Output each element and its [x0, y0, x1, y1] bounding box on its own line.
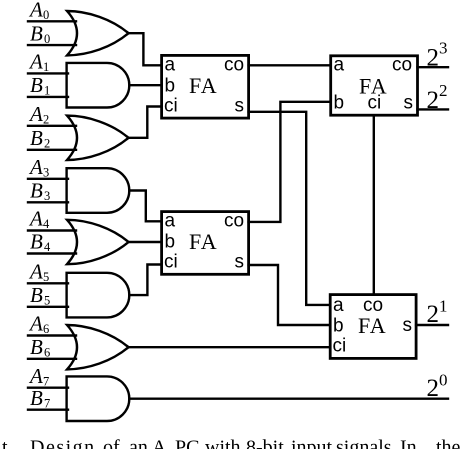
svg-text:ci: ci: [333, 335, 347, 356]
svg-text:b: b: [333, 316, 344, 337]
svg-text:8-bit: 8-bit: [246, 437, 284, 449]
svg-text:FA: FA: [358, 313, 387, 338]
svg-text:In: In: [400, 437, 417, 449]
svg-text:Design: Design: [30, 437, 96, 449]
AND gate G1 (A1,B1): [67, 63, 130, 108]
svg-text:signals.: signals.: [336, 437, 397, 449]
node A5 label: [28, 260, 49, 285]
node B3 label: [30, 179, 50, 204]
svg-text:s: s: [404, 93, 414, 114]
OR gate G0 (A0,B0): [67, 11, 129, 55]
wire U3.s to U4.b: [249, 265, 331, 325]
wire G7 out to 2^0: [129, 398, 448, 400]
svg-text:A: A: [28, 207, 43, 231]
caption text (cut off at bottom): [2, 437, 461, 449]
OR gate G2 (A2,B2): [67, 116, 129, 160]
svg-text:B: B: [30, 386, 43, 410]
svg-text:A: A: [28, 260, 43, 284]
wire U1.s to U4.a: [249, 112, 331, 305]
wire A3: [28, 178, 68, 180]
full adder U1 box: [162, 55, 249, 118]
svg-text:with: with: [205, 437, 241, 449]
AND gate G7 (A7,B7): [67, 376, 130, 421]
svg-text:2: 2: [427, 45, 440, 72]
svg-text:PC: PC: [175, 437, 199, 449]
node 2^0 label: [427, 370, 448, 401]
svg-text:B: B: [30, 179, 43, 203]
svg-text:0: 0: [43, 8, 49, 22]
wire A7: [28, 387, 68, 389]
node 2^2 label: [427, 81, 448, 114]
node A6 label: [28, 312, 49, 337]
wire A0: [28, 20, 76, 22]
full adder U4 box (bottom right): [330, 295, 416, 359]
svg-text:B: B: [30, 21, 43, 45]
svg-text:co: co: [392, 54, 412, 75]
OR gate G4 (A4,B4): [67, 220, 129, 264]
svg-text:ci: ci: [164, 252, 178, 273]
svg-text:B: B: [30, 335, 43, 359]
svg-text:2: 2: [427, 375, 440, 402]
svg-text:a: a: [165, 55, 176, 76]
svg-text:B: B: [30, 230, 43, 254]
wire U2.co to output 2^3: [418, 66, 449, 68]
svg-text:b: b: [334, 93, 345, 114]
svg-text:FA: FA: [189, 229, 218, 254]
svg-text:B: B: [30, 283, 43, 307]
svg-text:0: 0: [44, 32, 50, 46]
node A1 label: [28, 50, 49, 75]
node A2 label: [28, 102, 49, 127]
svg-text:co: co: [224, 211, 244, 232]
svg-text:A: A: [28, 102, 43, 126]
svg-text:1: 1: [439, 296, 448, 315]
OR gate G6 (A6,B6): [67, 325, 129, 369]
node A7 label: [28, 364, 49, 389]
wire G4 out to FA2.b: [129, 241, 162, 243]
svg-text:a: a: [333, 295, 344, 316]
node B5 label: [30, 283, 50, 308]
full adder U3 box (middle): [162, 212, 249, 275]
wire G5 out to FA2.ci: [129, 265, 161, 296]
wire U4.s to output 2^1: [416, 324, 448, 326]
wire B4: [28, 252, 76, 254]
wire G2 out to FA1.ci: [129, 107, 162, 138]
wire A4: [28, 229, 76, 231]
svg-text:FA: FA: [359, 74, 388, 99]
svg-text:A: A: [28, 155, 43, 179]
svg-text:B: B: [30, 73, 43, 97]
svg-text:A: A: [152, 437, 167, 449]
node B0 label: [30, 21, 50, 46]
node B1 label: [30, 73, 50, 98]
svg-text:A: A: [28, 364, 43, 388]
svg-text:2: 2: [44, 137, 50, 151]
AND gate G5 (A5,B5): [67, 273, 130, 318]
wire B2: [28, 149, 76, 151]
wire B6: [28, 358, 76, 360]
wire A2: [28, 125, 76, 127]
node B6 label: [30, 335, 50, 360]
wire B1: [28, 96, 68, 98]
svg-text:the: the: [436, 437, 461, 449]
wire B7: [28, 409, 68, 411]
svg-text:5: 5: [43, 270, 49, 284]
node A4 label: [28, 207, 50, 232]
node B2 label: [30, 126, 50, 151]
svg-text:s: s: [403, 315, 413, 336]
full adder U2 box (top right): [331, 56, 418, 115]
wire G6 out to FA4.ci: [129, 346, 331, 348]
svg-text:b: b: [165, 75, 176, 96]
wire A5: [28, 282, 68, 284]
svg-text:7: 7: [43, 374, 49, 388]
svg-text:input: input: [291, 437, 333, 449]
svg-text:an: an: [129, 437, 148, 449]
svg-text:4: 4: [44, 240, 51, 254]
wire A1: [28, 72, 68, 74]
wire U2.s to output 2^2: [418, 108, 449, 110]
svg-text:s: s: [235, 95, 245, 116]
wire A6: [28, 334, 76, 336]
svg-text:ci: ci: [164, 95, 178, 116]
node B4 label: [30, 230, 51, 255]
svg-text:0: 0: [439, 370, 448, 389]
node 2^1 label: [427, 296, 448, 328]
svg-text:2: 2: [427, 301, 440, 328]
wire U3.co to U2.b: [249, 102, 331, 222]
full adder U4 labels: [333, 295, 413, 357]
svg-text:t.: t.: [2, 437, 13, 449]
wire G3 out to FA2.a: [129, 191, 161, 222]
svg-text:4: 4: [43, 217, 50, 231]
wire G0 out to FA1.a: [129, 33, 162, 65]
svg-text:co: co: [224, 54, 244, 75]
svg-text:FA: FA: [189, 73, 218, 98]
svg-text:2: 2: [439, 81, 448, 100]
wire B0: [28, 44, 76, 46]
svg-text:3: 3: [44, 189, 50, 203]
node B7 label: [30, 386, 50, 411]
node 2^3 label: [427, 39, 448, 72]
node A3 label: [28, 155, 49, 180]
full adder U3 labels: [164, 211, 244, 273]
svg-text:6: 6: [44, 346, 50, 360]
node A0 label: [28, 0, 49, 22]
svg-text:of: of: [103, 437, 120, 449]
wire U4.co to U2.ci: [373, 115, 375, 294]
svg-text:3: 3: [439, 39, 448, 58]
full adder U2 labels: [334, 54, 414, 113]
svg-text:A: A: [28, 0, 43, 22]
wire B3: [28, 201, 68, 203]
svg-text:B: B: [30, 126, 43, 150]
svg-text:7: 7: [44, 396, 50, 410]
svg-text:s: s: [235, 252, 245, 273]
svg-text:6: 6: [43, 322, 49, 336]
AND gate G3 (A3,B3): [67, 168, 130, 213]
svg-text:a: a: [334, 54, 345, 75]
wire U1.co to U2.a: [249, 64, 331, 66]
svg-text:2: 2: [43, 113, 49, 127]
full adder U1 labels: [164, 54, 244, 116]
svg-text:1: 1: [43, 60, 49, 74]
svg-text:a: a: [165, 211, 176, 232]
wire G1 out to FA1.b: [129, 84, 161, 86]
svg-text:3: 3: [43, 166, 49, 180]
svg-text:2: 2: [427, 87, 440, 114]
svg-text:A: A: [28, 312, 43, 336]
svg-text:1: 1: [44, 84, 50, 98]
svg-text:b: b: [165, 232, 176, 253]
svg-text:5: 5: [44, 294, 50, 308]
wire B5: [28, 306, 68, 308]
svg-text:A: A: [28, 50, 43, 74]
